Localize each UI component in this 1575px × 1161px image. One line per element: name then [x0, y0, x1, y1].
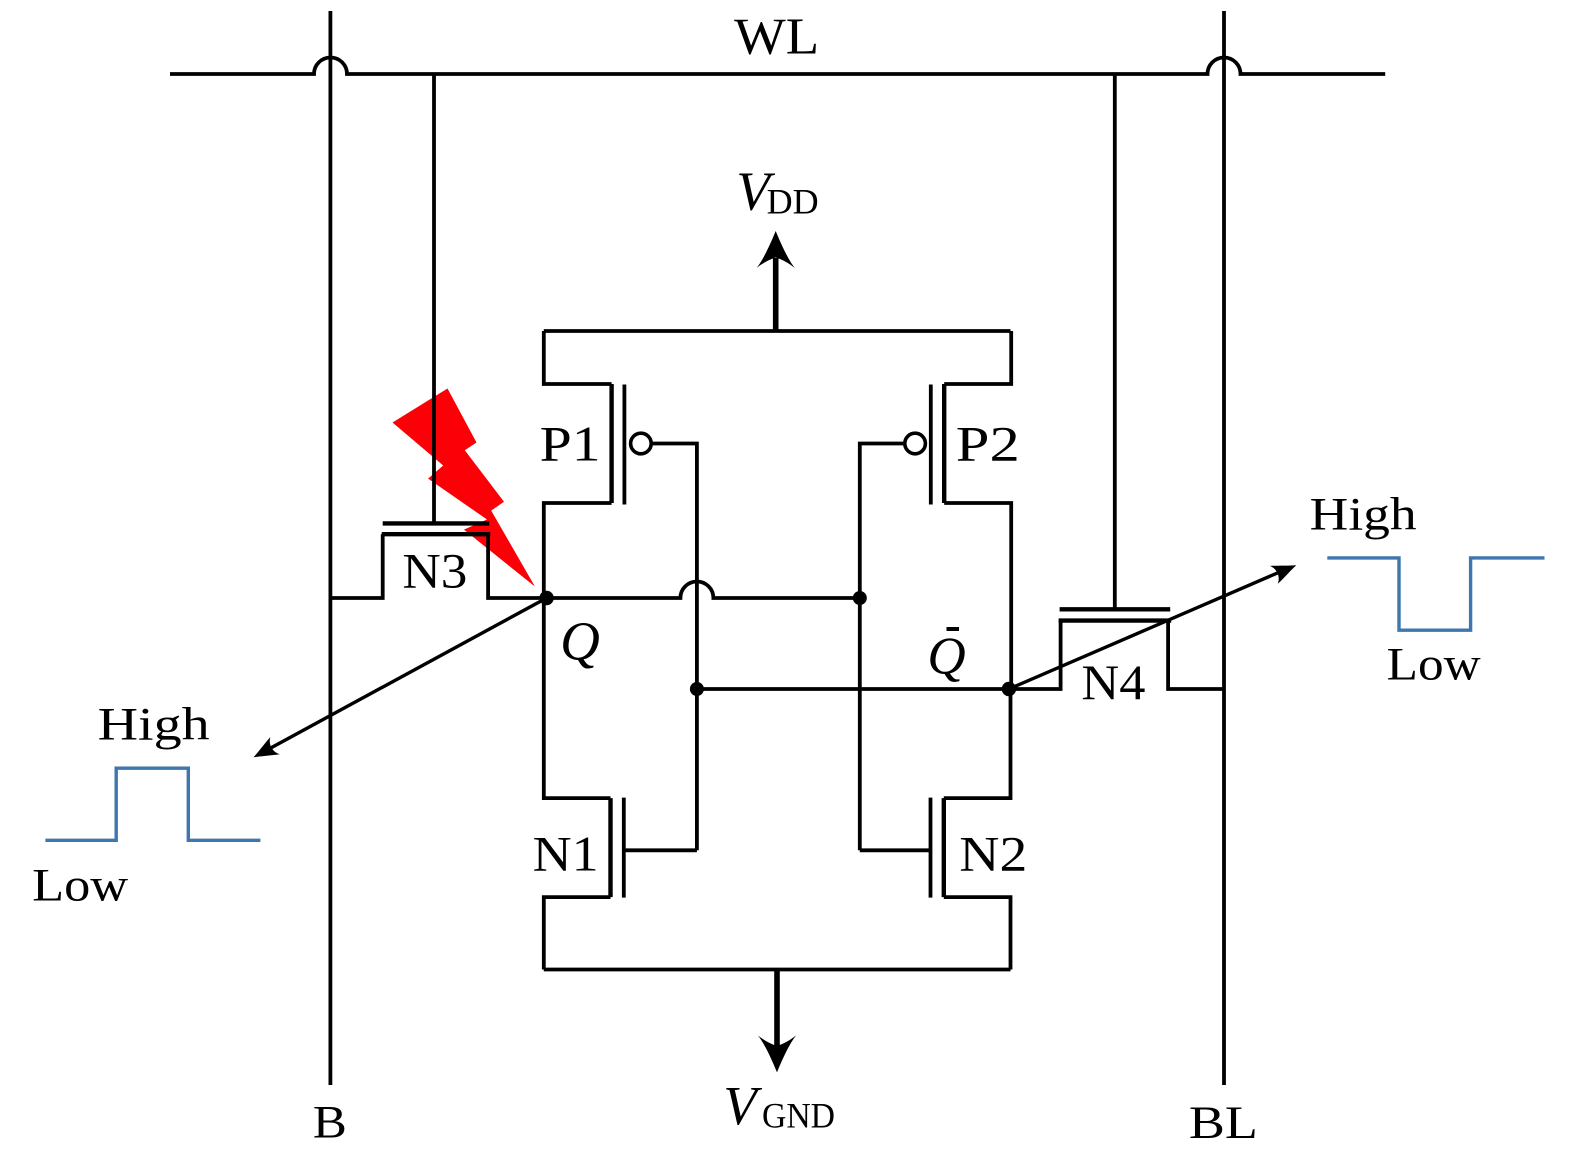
- svg-text:Low: Low: [1387, 638, 1481, 690]
- junction dot Q-to-P2gate: [853, 591, 867, 605]
- power VDD arrow: [757, 231, 795, 331]
- svg-text:Q: Q: [560, 611, 600, 672]
- wire node QB horizontal: [697, 687, 1009, 691]
- svg-text:DD: DD: [767, 181, 819, 221]
- svg-text:V: V: [723, 1075, 762, 1136]
- wire VDD rail: [544, 329, 1011, 333]
- node Q dot: [539, 591, 553, 605]
- wire P1 gate to node QB (vertical cross-coupling line): [651, 444, 697, 851]
- svg-text:N4: N4: [1081, 654, 1145, 710]
- svg-text:N1: N1: [533, 826, 599, 882]
- svg-text:WL: WL: [734, 9, 819, 66]
- wire P2 gate to node Q (vertical cross-coupling line): [860, 444, 905, 851]
- svg-text:B: B: [313, 1097, 347, 1149]
- node VGND label: [723, 1075, 835, 1136]
- svg-text:Low: Low: [32, 859, 128, 911]
- wire node Q horizontal with hop: [547, 582, 860, 599]
- wire bitline BL: [1222, 11, 1226, 1085]
- svg-text:GND: GND: [762, 1096, 835, 1136]
- node QB label (Q bar): [927, 628, 965, 686]
- transistor N1 (NMOS): [533, 598, 697, 970]
- transistor N4 (access NMOS, horizontal): [1009, 609, 1224, 710]
- svg-text:P1: P1: [540, 416, 601, 472]
- node VDD label: [736, 161, 818, 222]
- wire N4 gate drop from WL: [1113, 74, 1117, 609]
- left waveform (positive pulse): [45, 768, 260, 840]
- wire VGND rail: [544, 968, 1011, 972]
- transistor P2 (PMOS): [905, 331, 1020, 689]
- svg-text:High: High: [98, 699, 210, 751]
- wire arrow from node QB to right waveform: [1009, 556, 1300, 689]
- lightning bolt (SEU strike): [393, 389, 535, 587]
- transistor P1 (PMOS): [540, 331, 652, 598]
- svg-text:High: High: [1310, 489, 1417, 541]
- wire WL (word line with hops over B and BL): [170, 58, 1385, 75]
- right waveform (negative pulse): [1327, 558, 1544, 630]
- svg-text:N2: N2: [959, 826, 1027, 882]
- wire bitline B: [328, 11, 332, 1085]
- wire N3 gate drop from WL: [432, 74, 436, 523]
- power VGND arrow: [758, 970, 796, 1073]
- junction dot QB-to-P1gate: [690, 682, 704, 696]
- svg-text:P2: P2: [956, 416, 1020, 472]
- svg-text:Q: Q: [927, 628, 965, 686]
- svg-text:BL: BL: [1189, 1097, 1258, 1149]
- transistor N3 (access NMOS, horizontal): [330, 523, 546, 598]
- svg-text:N3: N3: [402, 543, 467, 599]
- node QB dot: [1002, 682, 1016, 696]
- transistor N2 (NMOS): [860, 689, 1027, 970]
- wire arrow from node Q to left waveform: [249, 598, 547, 766]
